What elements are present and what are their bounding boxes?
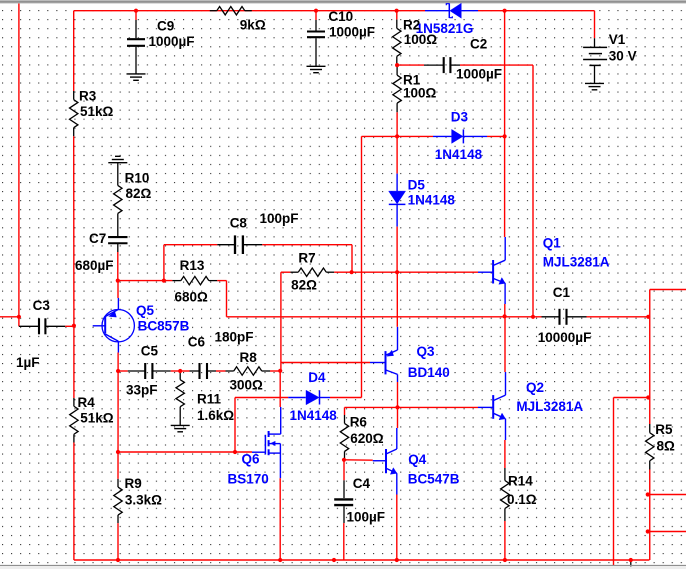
wire signal row xyxy=(118,370,128,372)
wire D4 down to gate row xyxy=(234,398,236,453)
svg-text:100Ω: 100Ω xyxy=(404,32,438,47)
svg-text:MJL3281A: MJL3281A xyxy=(516,399,583,414)
mosfet Q6 BS170 xyxy=(252,451,265,453)
wire left vertical from D3 row down to D4 row xyxy=(361,136,363,397)
svg-text:C9: C9 xyxy=(157,19,174,34)
resistor R4 51k xyxy=(73,326,75,398)
svg-text:C8: C8 xyxy=(230,215,248,230)
svg-text:R6: R6 xyxy=(350,415,368,430)
wire input rail xyxy=(0,316,19,318)
capacitor C5 33pF xyxy=(128,370,146,372)
capacitor C3 1uF input xyxy=(19,325,39,327)
svg-text:1000µF: 1000µF xyxy=(456,67,502,82)
svg-text:100Ω: 100Ω xyxy=(403,86,437,101)
wire D3 row xyxy=(362,135,397,137)
svg-text:1000µF: 1000µF xyxy=(329,25,375,40)
svg-text:100pF: 100pF xyxy=(260,211,299,226)
ground below C9 xyxy=(127,73,146,75)
svg-text:680µF: 680µF xyxy=(75,258,114,273)
svg-text:R11: R11 xyxy=(197,391,222,406)
svg-text:C1: C1 xyxy=(553,285,571,300)
svg-text:9kΩ: 9kΩ xyxy=(240,18,266,33)
svg-text:BC857B: BC857B xyxy=(138,318,190,333)
svg-text:300Ω: 300Ω xyxy=(230,378,264,393)
capacitor C2 1000uF xyxy=(424,64,444,66)
svg-text:1N4148: 1N4148 xyxy=(435,147,483,162)
resistor R14 0.1 xyxy=(504,468,506,481)
svg-text:BS170: BS170 xyxy=(228,472,269,487)
svg-text:Q4: Q4 xyxy=(408,452,427,467)
wire mid rail y317 xyxy=(227,316,542,318)
svg-text:C10: C10 xyxy=(328,9,353,24)
svg-text:R9: R9 xyxy=(125,476,142,491)
top window chrome bar xyxy=(0,0,686,1)
resistor R6 620 xyxy=(344,407,346,415)
bottom scrollbar chrome xyxy=(0,565,686,567)
capacitor C6 180pF xyxy=(180,370,189,372)
svg-text:D5: D5 xyxy=(408,177,426,192)
wire Q4 base row xyxy=(345,459,373,461)
svg-text:V1: V1 xyxy=(609,32,626,47)
svg-text:R3: R3 xyxy=(79,89,97,104)
svg-text:C3: C3 xyxy=(33,298,51,313)
wire top supply rail xyxy=(74,10,425,12)
resistor 9k xyxy=(210,10,217,12)
transistor Q4 BC547B npn xyxy=(373,460,386,462)
svg-text:1N4148: 1N4148 xyxy=(408,193,456,208)
svg-text:1000µF: 1000µF xyxy=(149,34,195,49)
resistor R2 100 xyxy=(396,20,398,29)
wire R7 base row xyxy=(281,271,291,273)
svg-text:620Ω: 620Ω xyxy=(350,431,384,446)
ground above R10 xyxy=(108,162,127,164)
svg-text:1.6kΩ: 1.6kΩ xyxy=(197,408,234,423)
svg-text:1µF: 1µF xyxy=(16,355,40,370)
ground below R11 xyxy=(171,424,190,426)
svg-text:MJL3281A: MJL3281A xyxy=(543,254,610,269)
transistor Q1 MJL3281A npn output xyxy=(478,271,493,273)
svg-text:51kΩ: 51kΩ xyxy=(80,104,114,119)
wire C7 junction row xyxy=(118,280,173,282)
svg-text:R13: R13 xyxy=(180,258,205,273)
wire Q3 base branch xyxy=(281,362,371,364)
transistor Q5 BC857B pnp input xyxy=(102,310,134,342)
svg-text:82Ω: 82Ω xyxy=(291,277,317,292)
wire Q2 base row xyxy=(345,406,479,408)
svg-text:180pF: 180pF xyxy=(215,330,254,345)
wire right vertical rail to Q1 collector xyxy=(504,11,506,137)
resistor R9 3.3k xyxy=(117,479,119,487)
wire VAS column x280 xyxy=(280,272,282,371)
transistor Q3 BD140 pnp driver xyxy=(370,362,386,364)
capacitor C9 xyxy=(135,11,137,20)
capacitor C7 680uF xyxy=(108,236,127,238)
resistor R13 680 xyxy=(172,280,180,282)
battery V1 30V xyxy=(594,11,596,39)
resistor R7 82 xyxy=(290,271,298,273)
diode D3 1N4148 xyxy=(433,135,452,137)
resistor R10 82 xyxy=(117,163,119,186)
svg-text:82Ω: 82Ω xyxy=(126,186,152,201)
wire C3 to Q5 base node xyxy=(65,325,74,327)
junction dots xyxy=(134,9,138,13)
schottky diode 1N5821G xyxy=(425,10,449,12)
svg-text:R5: R5 xyxy=(655,422,673,437)
wire speaker branch xyxy=(614,397,649,399)
resistor R8 300 xyxy=(216,370,226,372)
ground below C10 xyxy=(307,65,326,67)
svg-text:R10: R10 xyxy=(125,170,150,185)
svg-text:51kΩ: 51kΩ xyxy=(80,411,114,426)
wire C2 row xyxy=(397,64,424,66)
svg-text:0.1Ω: 0.1Ω xyxy=(507,492,537,507)
ground below V1 xyxy=(585,82,604,84)
wire R2 column xyxy=(396,11,398,20)
svg-text:8Ω: 8Ω xyxy=(657,438,676,453)
svg-text:30 V: 30 V xyxy=(609,49,637,64)
svg-text:C4: C4 xyxy=(353,476,371,491)
svg-text:R8: R8 xyxy=(240,350,258,365)
svg-text:R7: R7 xyxy=(298,250,315,265)
wire C2 to output node xyxy=(460,64,533,66)
svg-text:C2: C2 xyxy=(470,37,487,52)
svg-text:Q6: Q6 xyxy=(242,452,261,467)
wire gate row xyxy=(118,451,252,453)
svg-text:680Ω: 680Ω xyxy=(175,290,209,305)
svg-text:R14: R14 xyxy=(508,474,533,489)
wire ground stub below rail xyxy=(630,560,632,567)
wire C1 to load node xyxy=(587,316,650,318)
capacitor C1 10000uF output xyxy=(542,316,560,318)
svg-text:33pF: 33pF xyxy=(126,383,158,398)
svg-text:D4: D4 xyxy=(308,370,326,385)
svg-text:C6: C6 xyxy=(188,335,206,350)
svg-text:R2: R2 xyxy=(403,18,420,33)
diode D4 1N4148 xyxy=(235,397,288,399)
capacitor C10 xyxy=(315,11,317,20)
resistor R3 51k xyxy=(73,11,75,91)
wire load branch top xyxy=(650,289,686,291)
wire load stub 1 xyxy=(648,494,686,496)
svg-text:D3: D3 xyxy=(451,110,469,125)
svg-text:1N4148: 1N4148 xyxy=(290,408,338,423)
capacitor C8 100pF xyxy=(217,244,235,246)
resistor R5 8 load xyxy=(649,317,651,424)
diode D5 1N4148 xyxy=(396,136,398,173)
svg-text:BD140: BD140 xyxy=(408,365,450,380)
svg-text:Q3: Q3 xyxy=(417,344,436,359)
svg-text:C7: C7 xyxy=(89,231,106,246)
svg-text:3.3kΩ: 3.3kΩ xyxy=(125,492,162,507)
capacitor C4 100uF xyxy=(343,460,345,481)
transistor Q2 MJL3281A npn output xyxy=(478,406,493,408)
resistor R1 100 xyxy=(396,66,398,75)
resistor R11 1.6k xyxy=(179,371,181,380)
svg-text:BC547B: BC547B xyxy=(408,472,460,487)
wire C8 row xyxy=(164,244,217,246)
wire load stub 2 xyxy=(648,531,686,533)
wire bottom rail xyxy=(74,559,650,561)
wire R9 column xyxy=(117,371,119,479)
svg-text:10000µF: 10000µF xyxy=(538,330,592,345)
svg-text:R4: R4 xyxy=(78,395,96,410)
svg-text:100µF: 100µF xyxy=(347,510,386,525)
svg-text:Q1: Q1 xyxy=(543,236,562,251)
svg-text:Q5: Q5 xyxy=(136,303,155,318)
svg-text:Q2: Q2 xyxy=(526,380,544,395)
svg-text:C5: C5 xyxy=(141,344,159,359)
